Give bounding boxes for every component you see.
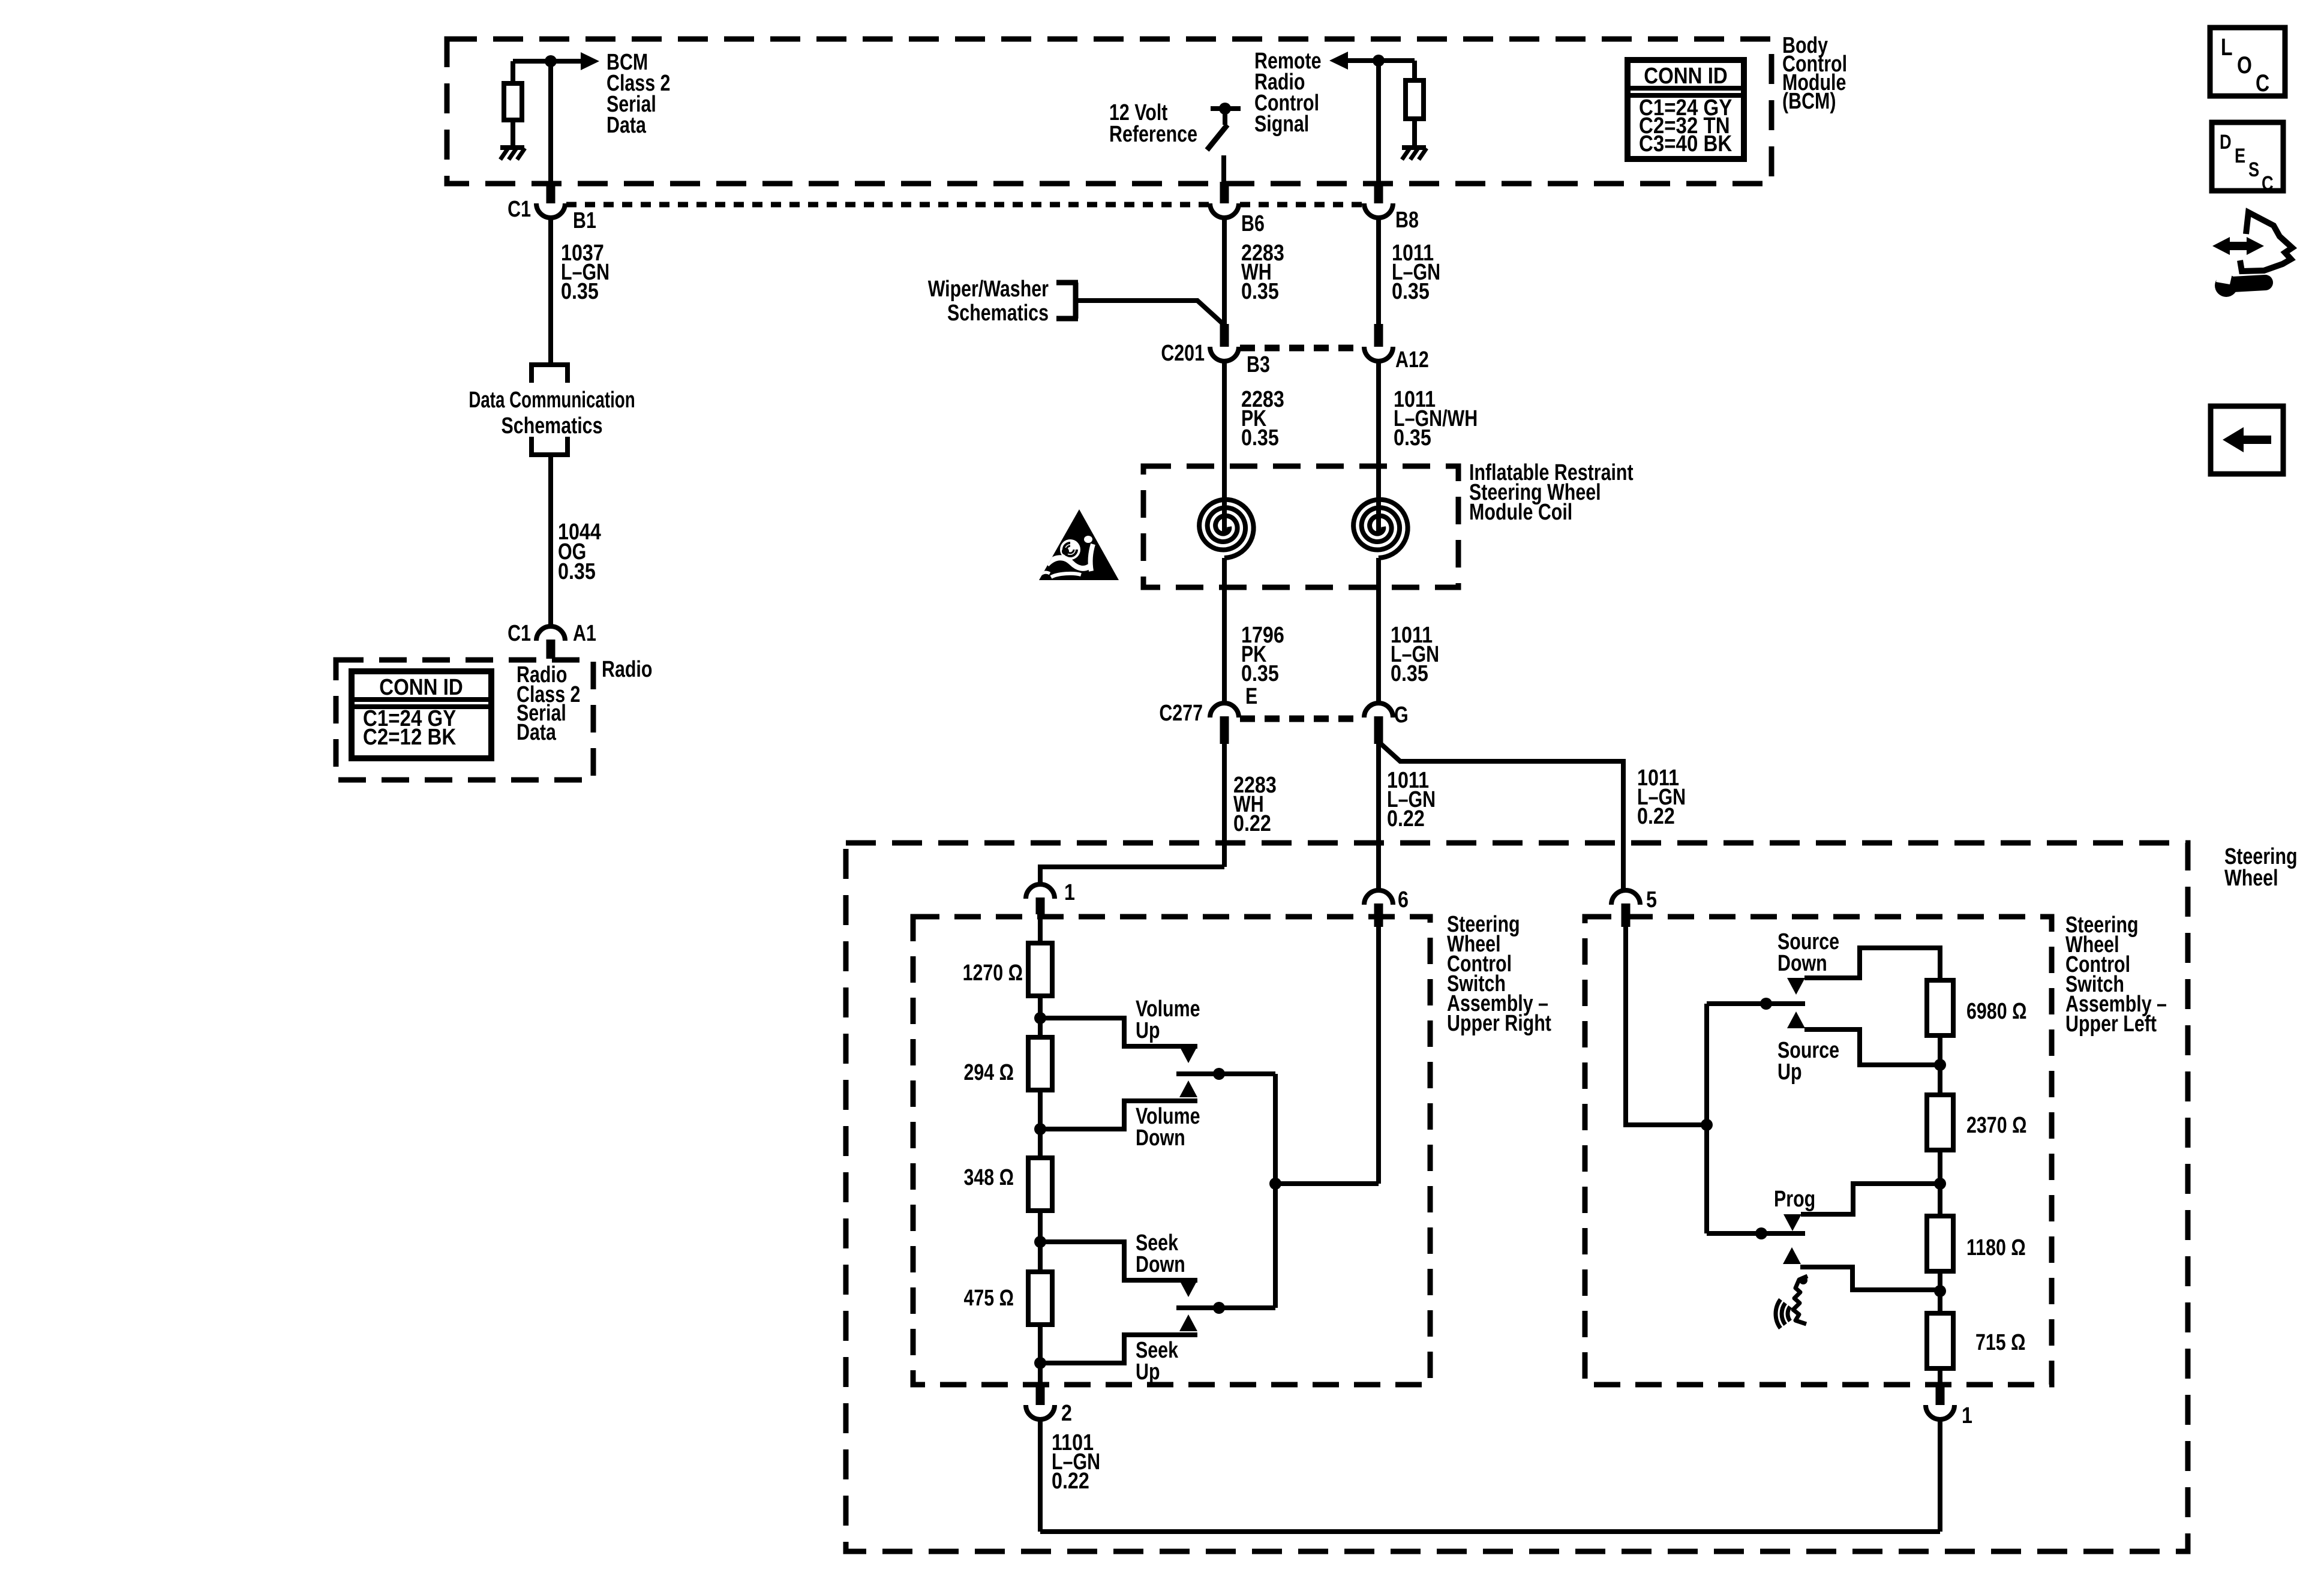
wire: ladder segment <box>1938 1271 1942 1313</box>
svg-text:Schematics: Schematics <box>502 413 603 439</box>
icon: back arrow box <box>2211 406 2283 474</box>
svg-text:1: 1 <box>1064 880 1075 905</box>
svg-text:0.35: 0.35 <box>1241 661 1279 686</box>
connector pin B8 <box>1364 203 1393 218</box>
connector pin B6 <box>1210 203 1239 218</box>
inductor: steering wheel coil (right) <box>1353 500 1408 558</box>
wire: branch G to pin 5 <box>1381 744 1623 890</box>
label: Source Down <box>1777 929 1839 976</box>
resistor 294 ohm <box>1028 1037 1052 1090</box>
switch: Seek Down contact <box>1040 1242 1197 1297</box>
wire: B1 lead inside BCM <box>548 61 553 184</box>
wire: ladder segment <box>1938 1035 1942 1095</box>
label: wire 2283 WH 0.35 <box>1241 241 1284 304</box>
svg-text:0.35: 0.35 <box>1392 279 1430 304</box>
wire: switch common bus <box>1273 1074 1278 1308</box>
svg-text:0.35: 0.35 <box>561 279 599 304</box>
switch: prog common contact <box>1707 1227 1805 1239</box>
svg-text:Up: Up <box>1136 1359 1160 1385</box>
label: Source Up <box>1777 1038 1839 1085</box>
svg-text:6980 Ω: 6980 Ω <box>1966 999 2026 1024</box>
connector pin G (C277) <box>1364 703 1393 744</box>
wire: bottom return bus <box>1040 1529 1940 1534</box>
arrow: signal direction right <box>581 52 599 70</box>
svg-text:0.22: 0.22 <box>1233 811 1271 836</box>
wire: pin 6 to common bus junction <box>1376 927 1381 1184</box>
svg-text:C1: C1 <box>508 197 531 222</box>
label: Seek Down <box>1136 1230 1185 1277</box>
module box: Steering Wheel Control Switch Assembly - Upper Left, dashed <box>1585 917 2052 1385</box>
svg-text:C3=40 BK: C3=40 BK <box>1639 131 1733 157</box>
node: junction voice tap <box>1934 1285 1946 1297</box>
node: junction volume up tap <box>1034 1012 1046 1024</box>
node: junction seek down tap <box>1034 1236 1046 1248</box>
wire: through left coil <box>1222 361 1227 532</box>
switch: Volume Up contact <box>1040 1018 1197 1063</box>
connector pin B1 (C1) <box>536 182 565 218</box>
svg-text:E: E <box>1245 684 1257 709</box>
module box: Body Control Module (BCM), dashed <box>447 39 1771 184</box>
icon: LOC box <box>2210 28 2285 97</box>
node: junction on B8 line <box>1373 55 1385 67</box>
resistor 6980 ohm <box>1927 980 1953 1035</box>
svg-text:A12: A12 <box>1395 347 1429 373</box>
svg-text:C1: C1 <box>508 621 531 646</box>
svg-text:L: L <box>2221 34 2233 61</box>
label: 12 Volt Reference <box>1109 100 1197 147</box>
wire: ladder segment <box>1038 1211 1043 1272</box>
switch: volume common contact <box>1176 1068 1275 1080</box>
module box: Steering Wheel, dashed outer <box>846 843 2188 1551</box>
svg-text:S: S <box>2248 158 2259 181</box>
label: wire 1044 OG 0.35 <box>558 520 601 584</box>
label: Steering Wheel Control Switch Assembly - Upper Left <box>2065 912 2167 1037</box>
svg-text:Signal: Signal <box>1254 112 1309 137</box>
wire: left coil to E <box>1222 558 1227 704</box>
node: junction source up tap <box>1934 1059 1946 1071</box>
wire: B3 stub <box>1220 324 1229 347</box>
ground: BCM internal (right) <box>1402 145 1426 150</box>
resistor 1270 ohm <box>1028 943 1052 996</box>
svg-text:CONN ID: CONN ID <box>1644 63 1728 89</box>
svg-text:G: G <box>1394 703 1409 728</box>
svg-text:B6: B6 <box>1241 211 1265 236</box>
switch: Source Up contact <box>1787 1011 1940 1065</box>
svg-text:Upper Left: Upper Left <box>2065 1011 2157 1037</box>
wire: ladder segment to pin 2 <box>1038 1325 1043 1385</box>
svg-text:C277: C277 <box>1159 701 1203 726</box>
svg-text:Down: Down <box>1777 951 1827 976</box>
svg-text:294 Ω: 294 Ω <box>963 1060 1014 1085</box>
wire: circuit 1037 L-GN <box>548 218 553 365</box>
label: Steering Wheel Control Switch Assembly - Upper Right <box>1447 912 1551 1036</box>
wire: BCM class-2 serial data internal node <box>513 59 582 64</box>
svg-text:Data: Data <box>517 720 557 745</box>
svg-text:0.22: 0.22 <box>1387 806 1425 831</box>
svg-text:1180 Ω: 1180 Ω <box>1966 1235 2026 1260</box>
label: Radio Class 2 Serial Data <box>517 662 580 745</box>
svg-text:Prog: Prog <box>1774 1187 1815 1212</box>
svg-text:2370 Ω: 2370 Ω <box>1966 1113 2026 1138</box>
wire: pin 2 stub <box>1036 1385 1045 1405</box>
resistor 475 ohm <box>1028 1272 1052 1325</box>
svg-text:475 Ω: 475 Ω <box>963 1286 1014 1311</box>
label: wire 1101 L-GN 0.22 <box>1052 1430 1100 1494</box>
svg-text:Radio: Radio <box>602 657 652 682</box>
wire: circuit 1044 OG <box>548 455 553 626</box>
svg-text:1: 1 <box>1962 1403 1972 1428</box>
wire: B8 stub <box>1374 182 1383 203</box>
wire: pin 5 to switch bus <box>1626 927 1707 1125</box>
wire: pin 1 stub (bottom left assembly) <box>1936 1385 1945 1405</box>
label: Wiper/Washer Schematics <box>928 277 1049 326</box>
svg-text:5: 5 <box>1646 887 1657 912</box>
label: Volume Down <box>1136 1104 1200 1151</box>
wire: pin 1 to bottom return bus <box>1938 1419 1942 1532</box>
svg-text:Up: Up <box>1777 1059 1802 1085</box>
wire: common bus to pin 6 lead <box>1275 1181 1379 1186</box>
label: wire 1011 L-GN/WH 0.35 <box>1394 387 1478 451</box>
label: wire 1011 L-GN 0.35 (coil to G) <box>1391 623 1439 686</box>
wire: A12 stub <box>1374 324 1383 347</box>
svg-text:Up: Up <box>1136 1018 1160 1043</box>
connector row dotted line C201 <box>1240 345 1362 352</box>
resistor 1180 ohm <box>1927 1216 1953 1271</box>
switch: seek common contact <box>1176 1302 1275 1314</box>
svg-text:0.35: 0.35 <box>1241 279 1279 304</box>
off-page reference: Data Communication Schematics <box>532 365 568 455</box>
label: Remote Radio Control Signal <box>1254 49 1321 137</box>
svg-text:A1: A1 <box>573 621 596 646</box>
svg-text:C2=12 BK: C2=12 BK <box>363 724 457 750</box>
switch: Source Down contact <box>1787 948 1940 995</box>
label: wire 1011 L-GN 0.22 (pin 5 branch) <box>1637 766 1686 829</box>
connector pin 1 (steering wheel, right assembly) <box>1026 884 1055 914</box>
label: Data Communication Schematics <box>469 388 635 439</box>
node: junction on B1 line <box>545 55 557 67</box>
switch: voice recognition contact <box>1783 1247 1940 1290</box>
switch: Seek Up contact <box>1040 1314 1197 1363</box>
svg-text:Data: Data <box>606 113 647 138</box>
wire: ladder to pin 1 bottom <box>1938 1368 1942 1385</box>
svg-text:Down: Down <box>1136 1125 1185 1151</box>
wire: left common bus <box>1704 1004 1709 1233</box>
label: Volume Up <box>1136 996 1200 1043</box>
connector pin A1 (C1 of Radio) <box>536 626 565 659</box>
resistor 715 ohm <box>1927 1313 1953 1368</box>
svg-text:348 Ω: 348 Ω <box>963 1165 1014 1190</box>
connector pin B3 (C201) <box>1210 347 1239 361</box>
svg-text:E: E <box>2235 144 2245 167</box>
svg-text:B1: B1 <box>573 208 596 233</box>
svg-text:Wiper/Washer: Wiper/Washer <box>928 277 1049 302</box>
connector row dotted line C1 <box>566 202 1209 208</box>
wire: ladder segment <box>1938 1150 1942 1216</box>
wire: B6 lead crossing BCM boundary <box>1220 182 1229 203</box>
node: junction common bus to pin 6 <box>1269 1178 1281 1190</box>
wire: circuit 1011 from B8 <box>1376 218 1381 324</box>
svg-text:6: 6 <box>1398 887 1409 912</box>
label: Steering Wheel <box>2224 844 2298 891</box>
off-page reference: Wiper/Washer Schematics bracket <box>1056 283 1078 319</box>
connector pin 6 <box>1364 890 1393 927</box>
wire: 1011 from G to pin 6 <box>1376 744 1381 890</box>
wire: ladder segment <box>1038 1090 1043 1158</box>
icon: DESC box <box>2212 122 2283 195</box>
wire: circuit 2283 WH 0.22 from E <box>1222 744 1227 867</box>
resistor: BCM internal pull (left) <box>504 61 522 147</box>
svg-text:0.22: 0.22 <box>1052 1469 1089 1494</box>
node: junction seek up tap <box>1034 1357 1046 1369</box>
label: wire 1037 L-GN 0.35 <box>561 241 609 304</box>
label: wire 1011 L-GN 0.22 (pin 6 branch) <box>1387 768 1436 831</box>
wire: circuit 1101 from pin 2 <box>1038 1419 1043 1532</box>
node: junction prog tap <box>1934 1178 1946 1190</box>
svg-text:D: D <box>2220 130 2232 154</box>
wire: right coil to G <box>1376 558 1381 704</box>
svg-text:C: C <box>2256 70 2269 97</box>
module box: Inflatable Restraint Steering Wheel Module Coil, dashed <box>1143 466 1458 587</box>
svg-text:Down: Down <box>1136 1252 1185 1277</box>
svg-text:Reference: Reference <box>1109 122 1197 147</box>
wire: wiper/washer tap to C201 <box>1078 301 1224 325</box>
resistor 348 ohm <box>1028 1158 1052 1211</box>
switch: Prog contact <box>1783 1184 1940 1231</box>
svg-text:C201: C201 <box>1161 341 1205 366</box>
label: wire 1011 L-GN 0.35 <box>1392 241 1440 304</box>
wire: B8 lead inside BCM <box>1376 61 1381 184</box>
connector row dotted line C277 <box>1240 716 1362 722</box>
svg-text:Wheel: Wheel <box>2224 866 2278 891</box>
svg-text:O: O <box>2237 52 2252 79</box>
module box: Radio, dashed <box>336 660 593 780</box>
svg-text:0.35: 0.35 <box>1394 425 1431 451</box>
svg-text:Schematics: Schematics <box>947 301 1049 326</box>
icon: diagnostic (dog head with arrow and wrench) <box>2212 212 2292 297</box>
label: wire 2283 PK 0.35 <box>1241 387 1284 451</box>
svg-text:CONN ID: CONN ID <box>379 674 463 700</box>
wire: pin 1 to resistor ladder <box>1038 914 1043 943</box>
inductor: steering wheel coil (left) <box>1199 500 1254 558</box>
connector pin E (C277) <box>1210 703 1239 744</box>
switch: Volume Down contact <box>1040 1080 1197 1129</box>
svg-text:B3: B3 <box>1247 352 1270 377</box>
wire: through right coil <box>1376 361 1381 532</box>
warning icon: SIR caution triangle <box>1039 509 1119 580</box>
module box: Steering Wheel Control Switch Assembly - Upper Right, dashed <box>913 917 1430 1385</box>
resistor: BCM internal pull (right) <box>1406 61 1424 147</box>
switch: 12 Volt Reference <box>1207 103 1241 184</box>
wire: circuit 2283 WH from B6 <box>1222 218 1227 325</box>
svg-text:Upper Right: Upper Right <box>1447 1011 1551 1036</box>
node: junction volume down tap <box>1034 1123 1046 1135</box>
svg-text:B8: B8 <box>1395 208 1419 233</box>
svg-text:Module Coil: Module Coil <box>1469 500 1572 525</box>
node: junction pin5 on left bus <box>1701 1119 1713 1131</box>
svg-text:2: 2 <box>1061 1401 1072 1426</box>
wire: E circuit into pin 1 <box>1040 867 1224 884</box>
label: wire 2283 WH 0.22 <box>1233 773 1277 836</box>
wire: ladder segment <box>1038 996 1043 1037</box>
svg-text:C: C <box>2262 172 2274 195</box>
BCM CONN ID table <box>1628 60 1744 159</box>
svg-text:715 Ω: 715 Ω <box>1975 1330 2026 1355</box>
label: Inflatable Restraint Steering Wheel Module Coil <box>1469 460 1634 525</box>
connector pin 2 (bottom, upper right assembly) <box>1026 1405 1055 1419</box>
switch: source common contact <box>1707 998 1805 1010</box>
ground: BCM internal (left) <box>500 145 524 150</box>
svg-text:Data Communication: Data Communication <box>469 388 635 413</box>
svg-text:1270 Ω: 1270 Ω <box>963 960 1023 986</box>
label: Seek Up <box>1136 1338 1179 1385</box>
label: BCM Class 2 Serial Data <box>606 50 670 138</box>
connector pin 1 (bottom, upper left assembly) <box>1926 1405 1954 1419</box>
svg-text:(BCM): (BCM) <box>1782 89 1836 114</box>
wire: remote radio control node <box>1347 58 1415 63</box>
arrow: Remote Radio Control Signal (left-pointing) <box>1329 52 1348 70</box>
connector pin 5 <box>1611 890 1640 927</box>
Radio CONN ID table <box>352 671 491 758</box>
label: Body Control Module (BCM) <box>1782 33 1847 114</box>
svg-text:0.35: 0.35 <box>558 559 596 584</box>
label: wire 1796 PK 0.35 <box>1241 623 1284 686</box>
icon: voice recognition (speaking head) <box>1776 1276 1807 1328</box>
svg-text:0.35: 0.35 <box>1391 661 1428 686</box>
svg-text:0.35: 0.35 <box>1241 425 1279 451</box>
connector pin A12 (C201) <box>1364 347 1393 361</box>
resistor 2370 ohm <box>1927 1095 1953 1150</box>
svg-text:0.22: 0.22 <box>1637 804 1675 829</box>
